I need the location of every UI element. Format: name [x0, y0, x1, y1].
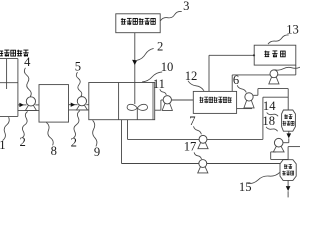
- svg-text:4: 4: [24, 55, 31, 69]
- svg-text:18: 18: [262, 114, 275, 128]
- svg-text:10: 10: [161, 60, 174, 74]
- svg-text:11: 11: [153, 77, 165, 91]
- svg-text:8: 8: [51, 144, 57, 158]
- svg-text:2: 2: [157, 40, 163, 54]
- svg-text:6: 6: [233, 73, 239, 87]
- svg-text:1: 1: [0, 138, 6, 152]
- svg-text:5: 5: [75, 60, 81, 74]
- svg-text:17: 17: [184, 140, 197, 154]
- svg-text:15: 15: [239, 180, 252, 194]
- svg-text:14: 14: [263, 99, 276, 113]
- svg-text:3: 3: [183, 0, 189, 13]
- svg-text:13: 13: [286, 23, 299, 37]
- svg-text:12: 12: [185, 69, 198, 83]
- svg-text:7: 7: [189, 114, 195, 128]
- svg-text:9: 9: [94, 145, 100, 159]
